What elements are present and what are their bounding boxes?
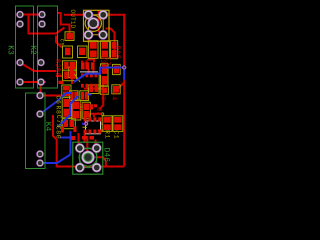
svg-text:U2: U2 <box>95 107 102 116</box>
svg-text:R85: R85 <box>114 46 121 60</box>
svg-text:C2: C2 <box>105 57 112 66</box>
svg-text:OUT1D: OUT1D <box>69 9 76 28</box>
svg-text:C1: C1 <box>113 130 120 139</box>
svg-text:R2R5: R2R5 <box>54 59 61 77</box>
svg-text:C80: C80 <box>55 126 62 140</box>
svg-text:K4: K4 <box>43 122 52 132</box>
svg-text:D46: D46 <box>101 148 110 163</box>
svg-text:K2: K2 <box>28 45 37 55</box>
svg-text:C5: C5 <box>58 39 64 46</box>
svg-text:C4: C4 <box>111 92 118 101</box>
svg-text:R6: R6 <box>77 103 84 112</box>
svg-text:R1: R1 <box>103 130 110 139</box>
svg-text:K3: K3 <box>5 45 14 55</box>
svg-text:R8: R8 <box>55 105 62 114</box>
svg-text:C6: C6 <box>55 95 62 104</box>
svg-text:R3: R3 <box>100 92 107 101</box>
